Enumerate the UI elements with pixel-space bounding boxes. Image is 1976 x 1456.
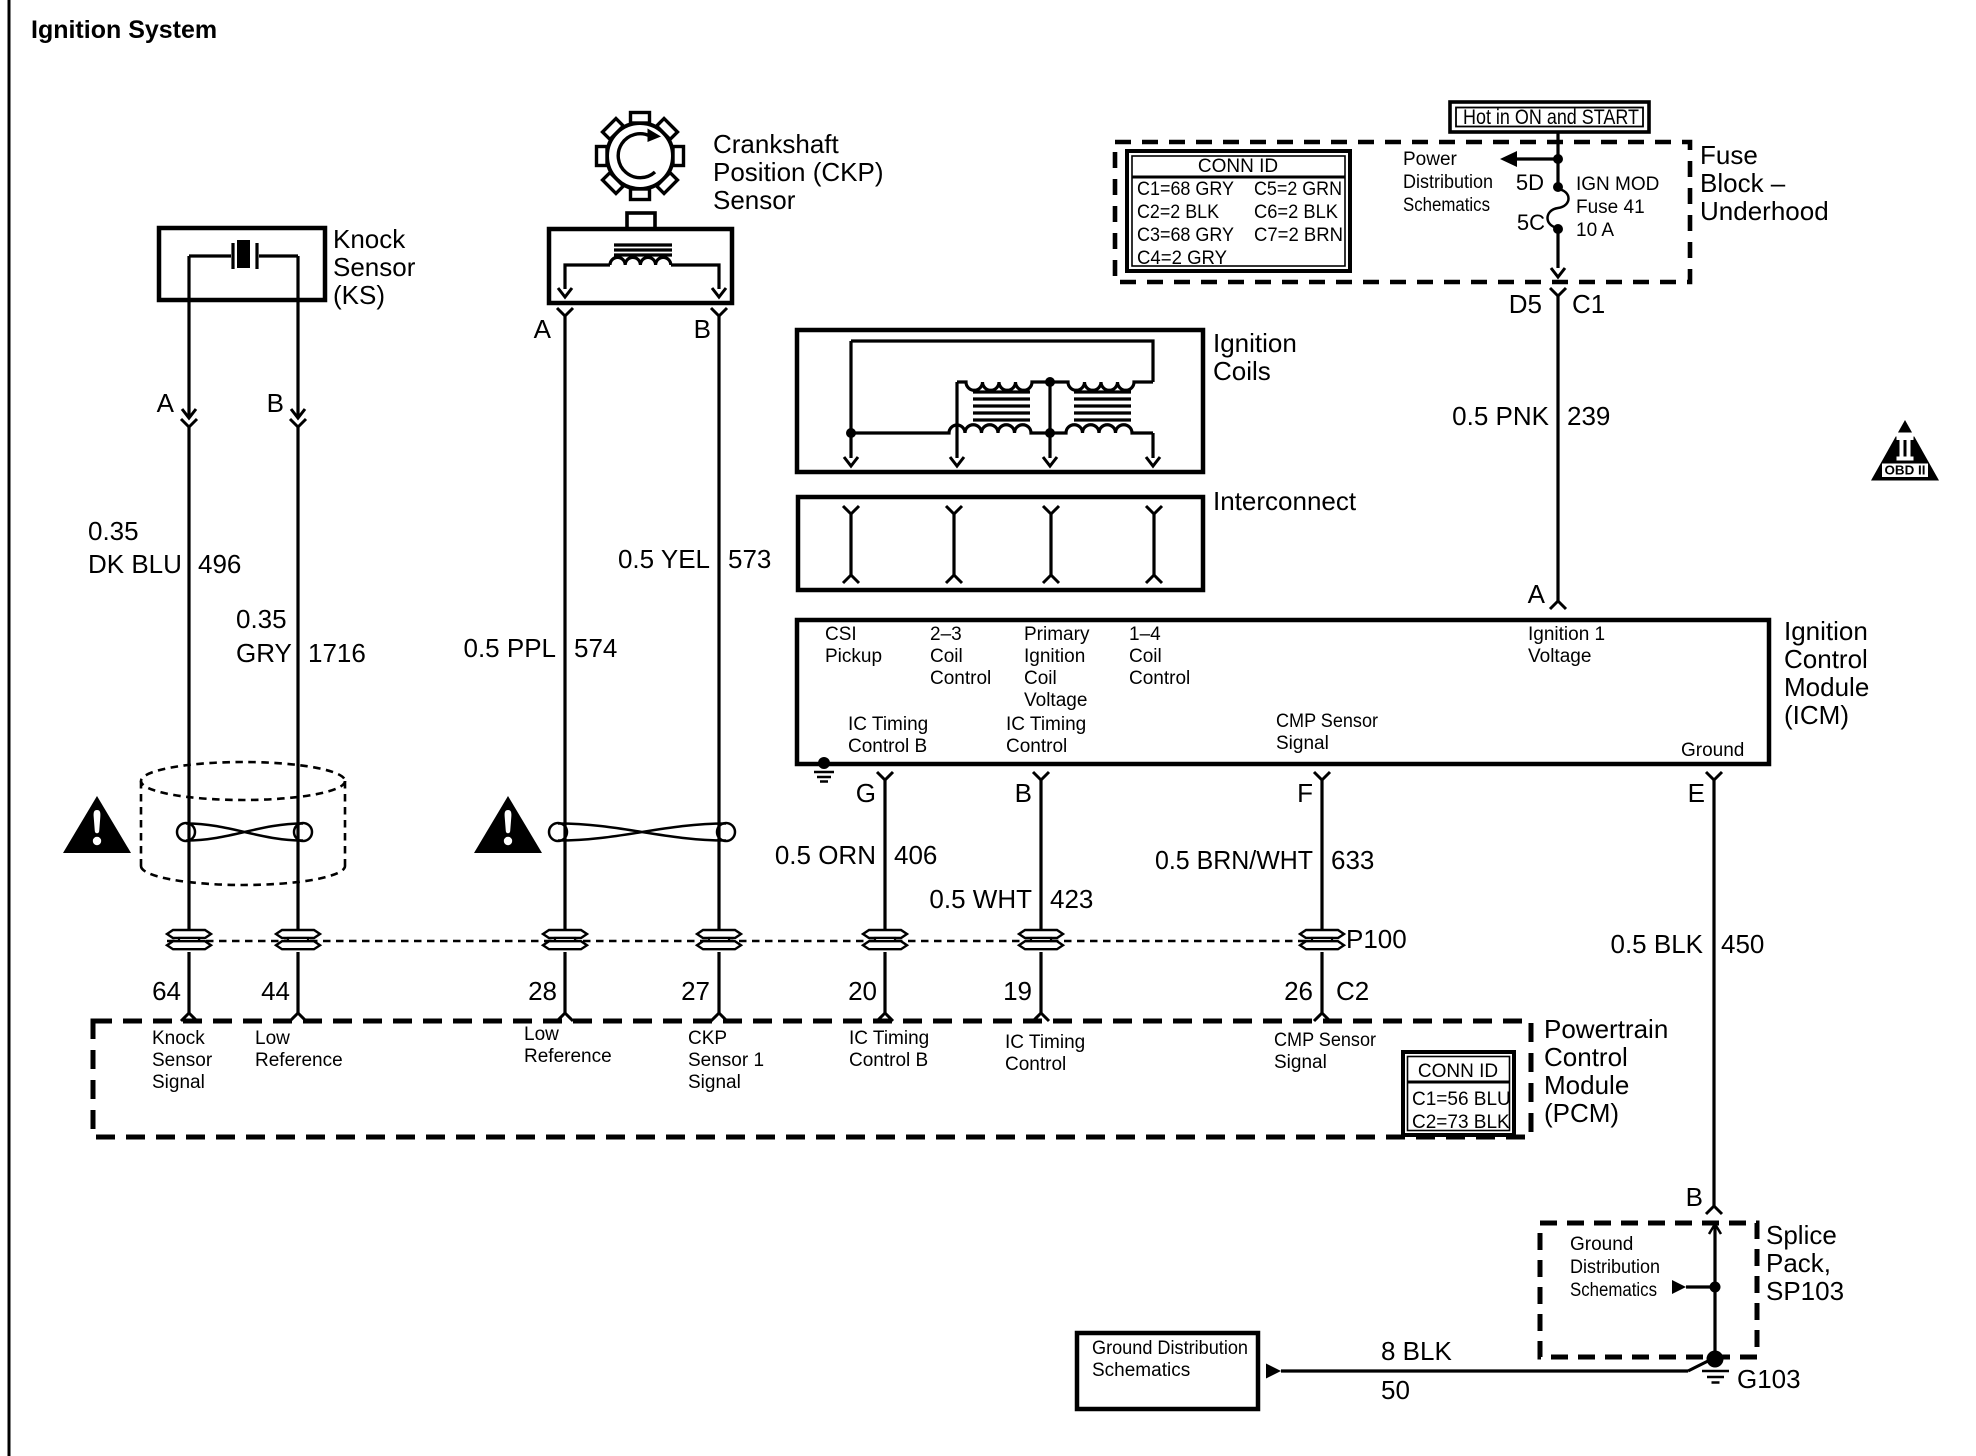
transformer link wire + dots (1043, 377, 1057, 466)
svg-text:Sensor: Sensor (333, 252, 416, 282)
KS piezo element (189, 240, 298, 269)
svg-text:Control: Control (930, 668, 991, 689)
ICM pin label CSI Pickup (825, 624, 882, 667)
svg-text:G: G (856, 778, 876, 808)
svg-text:Ignition: Ignition (1213, 328, 1297, 358)
svg-text:IC Timing: IC Timing (1006, 714, 1086, 735)
svg-text:496: 496 (198, 549, 241, 579)
connector C at CKP-A (543, 930, 587, 949)
wire label 0.35 DK BLU 496 (88, 516, 241, 579)
svg-text:Schematics: Schematics (1092, 1360, 1190, 1381)
svg-text:C2: C2 (1336, 976, 1369, 1006)
splice note arrow and junction (1672, 1280, 1721, 1294)
CKP gear icon (597, 113, 684, 200)
svg-text:Ignition: Ignition (1024, 646, 1085, 667)
svg-text:Splice: Splice (1766, 1220, 1837, 1250)
svg-text:Sensor: Sensor (152, 1050, 213, 1071)
CKP coil leads + internal arrows (558, 265, 726, 297)
ICM pin label 2-3 Coil Control (930, 624, 991, 689)
svg-text:Hot in ON and START: Hot in ON and START (1463, 106, 1639, 129)
fuse block dashed box (1115, 142, 1690, 282)
wire label 0.35 GRY 1716 (236, 604, 366, 668)
svg-text:C1: C1 (1572, 289, 1605, 319)
svg-text:Interconnect: Interconnect (1213, 486, 1357, 516)
svg-text:IC Timing: IC Timing (1005, 1032, 1085, 1053)
transformer 2 core (1074, 392, 1131, 420)
svg-text:10 A: 10 A (1576, 220, 1614, 241)
KS inline connector A (arrow + fork) (181, 409, 197, 427)
svg-text:C4=2 GRY: C4=2 GRY (1137, 248, 1227, 269)
interconnect terminal 1 (843, 506, 859, 583)
PCM pin label CKP Sensor 1 Signal (688, 1028, 764, 1093)
svg-text:Primary: Primary (1024, 624, 1090, 645)
svg-text:1–4: 1–4 (1129, 624, 1161, 645)
ICM pin E fork (1706, 772, 1722, 780)
svg-text:C6=2 BLK: C6=2 BLK (1254, 202, 1338, 223)
svg-text:E: E (1688, 778, 1705, 808)
ICM pin B fork (1033, 772, 1049, 780)
svg-text:B: B (1015, 778, 1032, 808)
CKP sensor box (549, 229, 732, 303)
CKP core lines (614, 245, 672, 255)
svg-text:CONN ID: CONN ID (1418, 1061, 1498, 1082)
ICM pin label Primary Ignition Coil Voltage (1024, 624, 1090, 711)
wire 239 PNK (1556, 296, 1559, 601)
KS label (333, 224, 416, 310)
knock sensor KS box (159, 228, 325, 300)
PCM pin label CMP Sensor Signal (1274, 1030, 1377, 1073)
svg-text:OBD II: OBD II (1885, 463, 1926, 478)
PCM pin label IC Timing Control B (849, 1028, 929, 1071)
wire G to PCM (877, 952, 893, 1021)
svg-text:Fuse: Fuse (1700, 140, 1758, 170)
ICM pin label IC Timing Control (1006, 714, 1086, 757)
svg-text:Control B: Control B (849, 1050, 928, 1071)
svg-text:5C: 5C (1517, 210, 1545, 235)
svg-text:Signal: Signal (688, 1072, 741, 1093)
ignition coils label (1213, 328, 1297, 386)
ICM label (1784, 616, 1869, 730)
wire E upper (1712, 780, 1715, 1206)
wire G (883, 780, 886, 929)
transformer 1 core (973, 392, 1030, 420)
svg-text:Voltage: Voltage (1528, 646, 1591, 667)
coils left drop wire (849, 341, 852, 433)
svg-text:GRY: GRY (236, 638, 292, 668)
svg-text:423: 423 (1050, 884, 1093, 914)
svg-text:B: B (694, 314, 711, 344)
svg-text:P100: P100 (1346, 924, 1407, 954)
ground wire arrow to schematics box (1266, 1364, 1281, 1379)
svg-text:Underhood: Underhood (1700, 196, 1829, 226)
connector C at wire G (863, 930, 907, 949)
svg-text:Ground: Ground (1570, 1234, 1633, 1255)
fuse block output fork D5/C1 (1550, 288, 1566, 296)
splice pack fork B (1706, 1206, 1722, 1214)
PCM label (1544, 1014, 1668, 1128)
svg-text:20: 20 (848, 976, 877, 1006)
svg-text:Control: Control (1006, 736, 1067, 757)
svg-text:(ICM): (ICM) (1784, 700, 1849, 730)
coil primary right (transformer 2 top winding) (1050, 382, 1153, 390)
svg-text:CMP Sensor: CMP Sensor (1274, 1030, 1377, 1051)
svg-text:633: 633 (1331, 845, 1374, 875)
wire label 0.5 YEL 573 (618, 544, 771, 574)
svg-text:DK BLU: DK BLU (88, 549, 182, 579)
svg-text:C2=2 BLK: C2=2 BLK (1137, 202, 1219, 223)
svg-text:Control B: Control B (848, 736, 927, 757)
svg-text:406: 406 (894, 840, 937, 870)
wire B1 to PCM (290, 952, 306, 1021)
wire KS-B lower segment (296, 427, 299, 929)
KS inline connector B (290, 409, 306, 427)
ICM pin F fork (1314, 772, 1330, 780)
wire KS-B upper segment (296, 256, 299, 418)
svg-text:26: 26 (1284, 976, 1313, 1006)
warning triangle 2 (474, 796, 542, 853)
wire label 0.5 BRN/WHT 633 (1155, 845, 1374, 875)
ICM pin A fork (1550, 601, 1566, 609)
svg-text:Reference: Reference (524, 1046, 612, 1067)
PCM pin label Knock Sensor Signal (152, 1028, 213, 1093)
splice internal note Ground Distribution Schematics (1570, 1234, 1660, 1301)
svg-text:Signal: Signal (152, 1072, 205, 1093)
ICM pin label Ignition 1 Voltage (1528, 624, 1605, 667)
svg-text:B: B (267, 388, 284, 418)
svg-text:28: 28 (528, 976, 557, 1006)
wire CKP-A (563, 316, 566, 929)
transformer 2 bottom winding (1050, 425, 1153, 433)
wire label 0.5 BLK 450 (1610, 929, 1764, 959)
svg-text:C7=2 BRN: C7=2 BRN (1254, 225, 1343, 246)
svg-text:Coil: Coil (1129, 646, 1162, 667)
svg-text:0.5 BLK: 0.5 BLK (1610, 929, 1703, 959)
svg-text:Distribution: Distribution (1403, 172, 1493, 193)
svg-text:Ignition System: Ignition System (31, 16, 217, 44)
PCM dashed box (93, 1021, 1531, 1137)
svg-text:CSI: CSI (825, 624, 857, 645)
splice internal wire + up arrow (1709, 1223, 1721, 1355)
wire A2 to PCM (557, 952, 573, 1021)
power distribution arrow (1500, 151, 1563, 167)
svg-text:IC Timing: IC Timing (848, 714, 928, 735)
svg-text:Control: Control (1129, 668, 1190, 689)
PCM pin label IC Timing Control (1005, 1032, 1085, 1075)
page left border line (8, 0, 11, 1456)
svg-text:Low: Low (255, 1028, 290, 1049)
svg-text:Ground Distribution: Ground Distribution (1092, 1338, 1248, 1359)
svg-text:IC Timing: IC Timing (849, 1028, 929, 1049)
svg-text:0.5 WHT: 0.5 WHT (929, 884, 1032, 914)
svg-text:Control: Control (1544, 1042, 1628, 1072)
svg-text:44: 44 (261, 976, 290, 1006)
interconnect terminal 2 (946, 506, 962, 583)
svg-text:C1=56 BLU: C1=56 BLU (1412, 1089, 1511, 1110)
svg-text:Signal: Signal (1274, 1052, 1327, 1073)
svg-text:19: 19 (1003, 976, 1032, 1006)
svg-text:Ground: Ground (1681, 740, 1744, 761)
Hot in ON and START box (1450, 102, 1649, 132)
wire A1 to PCM (181, 952, 197, 1021)
wire F (1320, 780, 1323, 929)
CONN ID table (fuse block) (1127, 151, 1350, 271)
svg-text:239: 239 (1567, 401, 1610, 431)
svg-text:F: F (1297, 778, 1313, 808)
ICM pin label CMP Sensor Signal (1276, 711, 1379, 754)
ICM case ground symbol (814, 757, 834, 782)
svg-text:64: 64 (152, 976, 181, 1006)
svg-text:1716: 1716 (308, 638, 366, 668)
wire B to PCM (1033, 952, 1049, 1021)
svg-text:Schematics: Schematics (1570, 1280, 1657, 1301)
junction dot coils left (846, 428, 856, 438)
coils left arrow (844, 433, 858, 466)
svg-text:(PCM): (PCM) (1544, 1098, 1619, 1128)
ignition coils box (797, 330, 1203, 472)
svg-text:27: 27 (681, 976, 710, 1006)
ICM box (797, 620, 1769, 764)
power feed wire from hot box (1556, 132, 1559, 186)
interconnect box (798, 497, 1203, 590)
warning triangle 1 (63, 796, 131, 853)
svg-text:C1=68 GRY: C1=68 GRY (1137, 179, 1234, 200)
wire label 0.5 PNK 239 (1452, 401, 1610, 431)
svg-text:Module: Module (1784, 672, 1869, 702)
svg-text:Pack,: Pack, (1766, 1248, 1831, 1278)
svg-text:CMP Sensor: CMP Sensor (1276, 711, 1379, 732)
svg-text:Fuse 41: Fuse 41 (1576, 197, 1645, 218)
svg-text:Powertrain: Powertrain (1544, 1014, 1668, 1044)
CKP sensor label (713, 129, 884, 215)
wire B2 to PCM (711, 952, 727, 1021)
twisted pair KS (177, 823, 312, 841)
svg-text:A: A (157, 388, 175, 418)
connector P100 (1300, 930, 1344, 949)
wire label 0.5 PPL 574 (463, 633, 617, 663)
connector C at wire B (1019, 930, 1063, 949)
svg-text:Distribution: Distribution (1570, 1257, 1660, 1278)
svg-text:Control: Control (1784, 644, 1868, 674)
splice pack dashed box (1540, 1223, 1757, 1357)
svg-text:Crankshaft: Crankshaft (713, 129, 839, 159)
svg-text:B: B (1686, 1182, 1703, 1212)
ground distribution schematics box text (1092, 1338, 1248, 1381)
twisted pair CKP (549, 823, 735, 841)
transformer 2 right drop + arrow (1146, 433, 1160, 466)
svg-text:Sensor 1: Sensor 1 (688, 1050, 764, 1071)
svg-text:8 BLK: 8 BLK (1381, 1336, 1452, 1366)
ground distribution schematics box (1077, 1333, 1258, 1409)
wire label 0.5 ORN 406 (775, 840, 938, 870)
svg-text:Pickup: Pickup (825, 646, 882, 667)
OBD II symbol (1871, 420, 1939, 481)
interconnect terminal 4 (1146, 506, 1162, 583)
PCM pin label Low Reference (44) (255, 1028, 343, 1071)
svg-text:Knock: Knock (152, 1028, 205, 1049)
CKP coil (610, 257, 671, 265)
harness connector dashed line (167, 940, 1322, 943)
CKP sensor top tab (627, 213, 655, 229)
interconnect terminal 3 (1043, 506, 1059, 583)
svg-text:2–3: 2–3 (930, 624, 962, 645)
svg-text:0.5 ORN: 0.5 ORN (775, 840, 876, 870)
svg-text:5D: 5D (1516, 170, 1544, 195)
svg-text:50: 50 (1381, 1375, 1410, 1405)
ICM pin G fork (877, 772, 893, 780)
connector C at KS-B (276, 930, 320, 949)
wire F to PCM (1314, 952, 1330, 1021)
svg-text:Module: Module (1544, 1070, 1629, 1100)
svg-text:IGN MOD: IGN MOD (1576, 174, 1659, 195)
ground wire 8 BLK 50 (1281, 1361, 1708, 1371)
connector C at CKP-B (697, 930, 741, 949)
svg-text:Power: Power (1403, 149, 1458, 170)
wire CKP-B (717, 316, 720, 929)
svg-text:D5: D5 (1509, 289, 1542, 319)
ICM pin label 1-4 Coil Control (1129, 624, 1190, 689)
svg-text:Control: Control (1005, 1054, 1066, 1075)
svg-text:Coils: Coils (1213, 356, 1271, 386)
ground G103 symbol (1702, 1351, 1729, 1383)
wire fuse to block edge (1551, 229, 1565, 277)
svg-text:0.35: 0.35 (236, 604, 287, 634)
svg-text:Reference: Reference (255, 1050, 343, 1071)
svg-text:Signal: Signal (1276, 733, 1329, 754)
svg-text:Sensor: Sensor (713, 185, 796, 215)
svg-text:A: A (534, 314, 552, 344)
svg-text:CONN ID: CONN ID (1198, 156, 1278, 177)
svg-text:Coil: Coil (930, 646, 963, 667)
coils top bus wire (851, 341, 1153, 382)
coils bottom bus + transformer 1 bottom winding with hop (851, 425, 1050, 433)
svg-text:Ignition 1: Ignition 1 (1528, 624, 1605, 645)
svg-text:CKP: CKP (688, 1028, 727, 1049)
CONN ID table (PCM) (1403, 1052, 1514, 1135)
fuse IGN MOD Fuse 41 10A (1548, 182, 1569, 234)
svg-text:Low: Low (524, 1024, 559, 1045)
svg-text:C3=68 GRY: C3=68 GRY (1137, 225, 1234, 246)
wire label 0.5 WHT 423 (929, 884, 1093, 914)
Power Distribution Schematics note (1403, 149, 1493, 216)
fuse label IGN MOD Fuse 41 10 A (1576, 174, 1659, 241)
svg-text:0.5 PPL: 0.5 PPL (463, 633, 556, 663)
connector C at KS-A (167, 930, 211, 949)
svg-text:0.5 PNK: 0.5 PNK (1452, 401, 1549, 431)
svg-text:Knock: Knock (333, 224, 406, 254)
svg-text:0.5 BRN/WHT: 0.5 BRN/WHT (1155, 845, 1313, 875)
PCM pin label Low Reference (28) (524, 1024, 612, 1067)
svg-text:0.5 YEL: 0.5 YEL (618, 544, 710, 574)
svg-text:450: 450 (1721, 929, 1764, 959)
svg-text:(KS): (KS) (333, 280, 385, 310)
wire KS-A upper segment (187, 256, 190, 418)
svg-text:Position (CKP): Position (CKP) (713, 157, 884, 187)
transformer 1 tap wire + arrow (950, 382, 964, 466)
svg-text:Schematics: Schematics (1403, 195, 1490, 216)
coil primary left (transformer 1 top winding) (957, 382, 1050, 390)
svg-text:SP103: SP103 (1766, 1276, 1844, 1306)
shield dashed cylinder (141, 762, 345, 885)
svg-text:Ignition: Ignition (1784, 616, 1868, 646)
svg-text:573: 573 (728, 544, 771, 574)
svg-text:Voltage: Voltage (1024, 690, 1087, 711)
svg-text:574: 574 (574, 633, 617, 663)
ICM pin label IC Timing Control B (848, 714, 928, 757)
svg-text:G103: G103 (1737, 1364, 1801, 1394)
fuse block label (1700, 140, 1829, 226)
svg-text:Block –: Block – (1700, 168, 1786, 198)
svg-text:A: A (1528, 579, 1546, 609)
splice pack label (1766, 1220, 1844, 1306)
svg-text:C2=73 BLK: C2=73 BLK (1412, 1112, 1510, 1133)
wire KS-A lower segment (187, 427, 190, 929)
svg-text:C5=2 GRN: C5=2 GRN (1254, 179, 1342, 200)
svg-text:0.35: 0.35 (88, 516, 139, 546)
CKP pin forks A B (557, 308, 727, 316)
svg-text:Coil: Coil (1024, 668, 1057, 689)
wire B (1039, 780, 1042, 929)
